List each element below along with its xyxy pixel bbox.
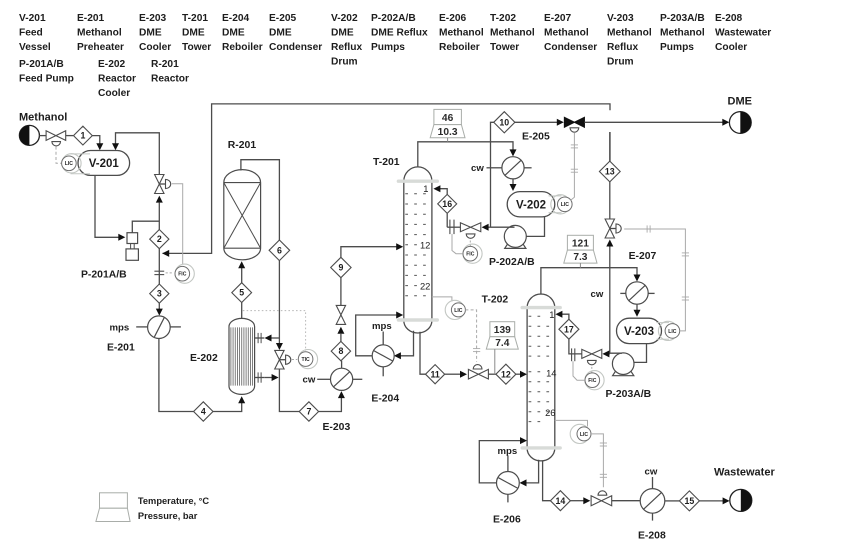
svg-text:cw: cw	[303, 375, 316, 386]
instrument LIC on V-201	[71, 154, 91, 174]
wire stream 8 to check valve	[337, 327, 344, 342]
flow orifice on T-202 reflux line	[572, 348, 575, 361]
cw ticks E-208	[652, 477, 654, 521]
svg-text:Wastewater: Wastewater	[715, 28, 771, 39]
svg-text:T-201: T-201	[182, 13, 208, 24]
wire stream 7 to E-203	[319, 391, 345, 411]
svg-text:FIC: FIC	[178, 272, 187, 278]
svg-text:7.4: 7.4	[495, 338, 509, 349]
svg-text:V-201: V-201	[19, 13, 46, 24]
svg-text:LIC: LIC	[561, 202, 570, 208]
exchanger E-208 wastewater cooler	[640, 489, 665, 514]
svg-text:E-204: E-204	[222, 13, 250, 24]
wire V-201 bottoms to pump	[95, 175, 120, 237]
wire stream 10 to DME product valve	[515, 119, 564, 126]
svg-text:T-201: T-201	[373, 157, 400, 168]
svg-text:FIC: FIC	[466, 252, 475, 258]
node stream 1	[74, 126, 93, 145]
signal LIC to wastewater valve	[591, 434, 603, 487]
instrument LIC on T-201 bottoms	[432, 297, 452, 302]
svg-text:Pumps: Pumps	[660, 42, 694, 53]
vessel V-203 methanol reflux drum	[617, 318, 662, 343]
svg-text:mps: mps	[110, 322, 130, 333]
svg-text:5: 5	[239, 288, 244, 298]
svg-text:Methanol: Methanol	[19, 111, 67, 123]
wire stream 14 to valve	[570, 497, 590, 504]
mps tick E-204	[382, 332, 384, 377]
equipment legend header row 1	[19, 13, 771, 68]
instrument LIC on T-202 bottoms	[555, 420, 588, 426]
svg-text:DME: DME	[331, 28, 354, 39]
svg-text:139: 139	[494, 325, 511, 336]
wire pump riser to valve	[156, 196, 163, 230]
wire bypass branch into E-202 upper nozzle	[265, 335, 280, 342]
wire T-202 bottoms to stream 14	[543, 461, 551, 501]
wire reflux junction to valve	[482, 224, 491, 231]
wire recycle into V-201 second inlet	[116, 133, 160, 175]
flow orifice on reflux line	[450, 220, 454, 235]
svg-text:cw: cw	[591, 289, 604, 300]
svg-text:E-203: E-203	[323, 422, 351, 433]
flow orifice FE on feed line	[154, 271, 173, 274]
T-201 trays (dashed)	[405, 194, 430, 296]
T-201 tray labels 1 12 22	[420, 183, 430, 291]
svg-text:22: 22	[420, 280, 430, 291]
pump P-203A/B	[613, 371, 634, 376]
svg-text:cw: cw	[645, 467, 658, 478]
svg-text:1: 1	[423, 183, 428, 194]
signal FIC to T-202 reflux valve (dashed)	[591, 367, 593, 373]
instrument FIC on feed line	[175, 264, 194, 283]
exchanger E-206 methanol reboiler	[497, 472, 520, 495]
wire P-202 discharge to junction	[491, 226, 515, 228]
signal V-202 LIC to product valve	[571, 132, 575, 200]
signal FIC to recycle valve	[172, 184, 183, 264]
svg-text:Methanol: Methanol	[660, 28, 705, 39]
E-202 lower nozzle with flanges	[255, 372, 265, 382]
flag stream data 46 C / 10.3 bar	[434, 109, 462, 124]
feed control valve	[46, 131, 66, 146]
svg-text:Reflux: Reflux	[607, 42, 638, 53]
exchanger E-204 DME reboiler	[372, 345, 394, 367]
pump P-201A/B (canned)	[126, 233, 138, 261]
instrument FIC T-202 reflux	[585, 371, 604, 390]
svg-text:LIC: LIC	[668, 329, 677, 335]
svg-text:DME: DME	[182, 28, 205, 39]
control valve wastewater (LIC)	[591, 491, 612, 506]
svg-text:6: 6	[277, 245, 282, 255]
wire into E-201	[156, 309, 163, 316]
cw ticks E-203	[317, 378, 362, 380]
svg-text:E-202: E-202	[98, 59, 126, 70]
wire E-206 vapor return to column	[479, 437, 527, 483]
wire E-202 outlet rejoins bypass	[264, 374, 278, 381]
wire stream 17 into T-202 top	[555, 311, 569, 320]
svg-text:E-203: E-203	[139, 13, 167, 24]
svg-text:P-202A/B: P-202A/B	[489, 257, 535, 268]
node recycle-feed junction arrow	[162, 250, 169, 257]
node stream 10	[494, 112, 515, 133]
svg-text:Reactor: Reactor	[151, 74, 189, 85]
node stream 2	[150, 230, 169, 249]
node stream 12	[496, 364, 516, 384]
product stream symbol wastewater	[730, 489, 752, 511]
svg-text:Condenser: Condenser	[544, 42, 597, 53]
wire P-203 discharge riser	[610, 246, 622, 353]
wire E-205 to V-202	[510, 179, 517, 191]
vessel V-201 feed vessel	[78, 151, 130, 176]
svg-text:Reactor: Reactor	[98, 74, 136, 85]
cw ticks E-205	[487, 167, 532, 169]
svg-text:T-202: T-202	[490, 13, 516, 24]
svg-text:DME: DME	[269, 28, 292, 39]
node stream 5	[232, 283, 252, 303]
wire valve to stream 13	[609, 182, 611, 219]
svg-text:P-203A/B: P-203A/B	[606, 389, 652, 400]
product stream symbol DME	[729, 112, 751, 134]
exchanger E-205 DME condenser	[502, 157, 524, 179]
node stream 3	[150, 284, 169, 303]
svg-text:E-206: E-206	[493, 515, 521, 526]
wire junction riser to stream 10	[491, 122, 495, 227]
wire methanol recycle header line	[163, 104, 611, 254]
svg-text:Pumps: Pumps	[371, 42, 405, 53]
instrument LIC on V-202	[549, 196, 562, 213]
wire reflux valve to stream 17	[569, 339, 582, 354]
exchanger E-207 methanol condenser	[626, 282, 648, 304]
signal LIC to bottoms valve (dashed)	[465, 310, 476, 362]
signal orifice to FIC	[452, 234, 463, 254]
wire stream 9 feed into T-201	[341, 243, 403, 257]
svg-text:Pressure, bar: Pressure, bar	[138, 511, 198, 521]
svg-text:Vessel: Vessel	[19, 42, 51, 53]
svg-text:Methanol: Methanol	[607, 28, 652, 39]
svg-text:E-208: E-208	[715, 13, 743, 24]
svg-text:12: 12	[501, 369, 511, 379]
wire stream 11 to valve	[445, 371, 467, 378]
feed stream symbol (half-filled circle)	[19, 125, 39, 145]
control valve methanol recycle	[605, 219, 621, 238]
svg-text:DME Reflux: DME Reflux	[371, 28, 428, 39]
wire T-202 overhead to E-207	[541, 268, 637, 295]
svg-text:15: 15	[685, 496, 695, 506]
signal LIC to feed valve (dashed)	[56, 147, 61, 164]
T-202 trays (dashed)	[529, 316, 554, 421]
node stream 11	[426, 365, 445, 384]
svg-text:E-207: E-207	[544, 13, 572, 24]
svg-text:P-201A/B: P-201A/B	[81, 270, 127, 281]
wire stream 4 to E-202 bottom	[213, 396, 245, 411]
wire pump discharge to riser	[132, 221, 159, 233]
wire valve to stream 1	[66, 135, 74, 137]
wire E-208 to stream 15	[665, 500, 680, 502]
wire valve to stream 9	[340, 278, 342, 306]
wire E-204 vapor return to column	[356, 312, 404, 356]
node stream 6	[269, 240, 290, 261]
svg-text:4: 4	[201, 407, 206, 417]
svg-text:P-201A/B: P-201A/B	[19, 59, 64, 70]
wire T-201 overhead to E-205	[418, 142, 513, 167]
wire bypass to stream 7	[279, 369, 299, 411]
svg-text:10: 10	[499, 117, 509, 127]
instrument TIC	[298, 350, 317, 369]
svg-text:Drum: Drum	[607, 57, 634, 68]
svg-text:V-203: V-203	[624, 326, 654, 338]
wire stream 2 down to E-201	[158, 249, 160, 310]
svg-text:Methanol: Methanol	[439, 28, 484, 39]
svg-text:V-201: V-201	[89, 158, 120, 170]
svg-text:V-202: V-202	[516, 199, 546, 211]
control valve T-202 reflux (FIC)	[582, 349, 602, 364]
node stream 16	[438, 194, 457, 213]
svg-text:2: 2	[157, 234, 162, 244]
svg-text:Methanol: Methanol	[77, 28, 122, 39]
svg-text:R-201: R-201	[151, 59, 179, 70]
svg-text:10.3: 10.3	[438, 127, 458, 138]
wire T-202 reboiler draw to E-206	[520, 460, 539, 487]
exchanger E-202 reactor cooler (shell and tube)	[229, 318, 255, 394]
svg-text:TIC: TIC	[301, 357, 310, 363]
svg-text:E-207: E-207	[629, 251, 657, 262]
signal TIC temperature tap (dotted)	[243, 311, 306, 351]
wire feed to valve	[39, 135, 46, 137]
wire E-207 to V-203	[634, 304, 641, 317]
svg-text:16: 16	[442, 199, 452, 209]
valve on T-201 feed riser	[336, 305, 345, 324]
flag stream data 139 C / 7.4 bar	[490, 322, 515, 337]
wire E-201 to stream 4 to E-202	[159, 339, 194, 412]
svg-text:Reflux: Reflux	[331, 42, 362, 53]
svg-text:14: 14	[556, 496, 566, 506]
instrument FIC T-201 reflux	[463, 244, 482, 263]
node stream 4	[194, 402, 213, 421]
node stream 15	[679, 491, 699, 511]
control valve T-201 reflux (FIC)	[460, 223, 480, 239]
svg-text:E-206: E-206	[439, 13, 467, 24]
wire stream 12 into T-202	[516, 371, 527, 378]
svg-text:Preheater: Preheater	[77, 42, 124, 53]
vessel V-202 DME reflux drum	[507, 192, 555, 217]
wire E-203 up to stream 8	[341, 361, 343, 368]
svg-text:E-208: E-208	[638, 530, 666, 541]
exchanger E-203 DME cooler	[331, 368, 353, 390]
wire reflux valve to stream 16	[447, 226, 460, 228]
wire V-202 bottoms to P-202	[526, 217, 545, 237]
svg-text:12: 12	[420, 240, 430, 251]
exchanger E-201 methanol preheater	[148, 316, 171, 339]
svg-text:DME: DME	[222, 28, 245, 39]
equipment legend header row 2	[19, 59, 189, 99]
reactor R-201 packed bed	[224, 170, 261, 260]
svg-text:14: 14	[546, 367, 556, 378]
svg-text:Reboiler: Reboiler	[439, 42, 480, 53]
control valve recycle to V-201	[155, 175, 171, 194]
svg-text:mps: mps	[498, 446, 518, 457]
svg-text:Drum: Drum	[331, 57, 358, 68]
svg-text:Methanol: Methanol	[490, 28, 535, 39]
cw ticks E-207	[620, 292, 654, 294]
svg-text:Cooler: Cooler	[98, 88, 130, 99]
svg-text:26: 26	[545, 407, 555, 418]
svg-text:Feed Pump: Feed Pump	[19, 74, 74, 85]
node stream 14	[550, 491, 570, 511]
svg-text:LIC: LIC	[454, 308, 463, 314]
node stream 13	[599, 161, 620, 182]
svg-text:V-203: V-203	[607, 13, 634, 24]
signal FIC to reflux valve (dashed)	[469, 241, 471, 247]
T-202 tray labels 1 14 26	[545, 309, 556, 418]
instrument LIC on V-203	[657, 323, 670, 340]
svg-text:FIC: FIC	[588, 378, 597, 384]
svg-text:Feed: Feed	[19, 28, 43, 39]
svg-text:Temperature, °C: Temperature, °C	[138, 496, 210, 506]
wire valve to stream 12	[488, 373, 496, 375]
wire E-202 top to stream 5	[241, 302, 243, 319]
node stream 7	[299, 402, 318, 421]
node stream 9	[331, 257, 351, 277]
svg-text:E-204: E-204	[371, 393, 399, 404]
wire stream 5 into R-201	[238, 261, 245, 282]
svg-text:E-205: E-205	[522, 131, 550, 142]
wire stream 15 to wastewater product	[699, 497, 729, 504]
wire stream 1 to V-201 inlet	[92, 136, 100, 145]
svg-text:P-202A/B: P-202A/B	[371, 13, 416, 24]
svg-text:9: 9	[338, 263, 343, 273]
svg-text:cw: cw	[471, 163, 484, 174]
mps tick lines E-201	[136, 326, 181, 328]
wire valve to E-208	[612, 500, 641, 502]
svg-text:Condenser: Condenser	[269, 42, 322, 53]
svg-text:46: 46	[442, 113, 454, 124]
wire reflux branch to valve	[602, 350, 609, 357]
svg-text:E-201: E-201	[77, 13, 105, 24]
wire reactor outlet to bypass column	[241, 160, 280, 241]
svg-text:13: 13	[605, 167, 615, 177]
svg-text:DME: DME	[139, 28, 162, 39]
svg-text:Tower: Tower	[490, 42, 519, 53]
wire V-203 bottoms to P-203	[635, 344, 647, 363]
svg-text:E-205: E-205	[269, 13, 297, 24]
wire DME product line	[584, 119, 729, 126]
svg-text:11: 11	[430, 369, 439, 379]
svg-text:Cooler: Cooler	[139, 42, 171, 53]
svg-text:Wastewater: Wastewater	[714, 466, 775, 478]
svg-text:Tower: Tower	[182, 42, 211, 53]
column T-201 DME tower	[398, 167, 437, 333]
svg-text:V-202: V-202	[331, 13, 358, 24]
signal V-203 LIC to recycle valve	[624, 229, 685, 331]
svg-text:E-201: E-201	[107, 342, 135, 353]
control valve E-202 bypass (TIC)	[275, 350, 291, 369]
mps tick E-206	[507, 455, 509, 502]
E-202 upper nozzle with flanges	[255, 333, 265, 343]
svg-text:8: 8	[338, 346, 343, 356]
svg-text:DME: DME	[728, 95, 752, 107]
svg-text:7: 7	[306, 407, 311, 417]
flag stream data 121 C / 7.3 bar	[567, 235, 593, 250]
svg-text:P-203A/B: P-203A/B	[660, 13, 705, 24]
control valve T-201 bottoms	[468, 365, 488, 379]
svg-text:1: 1	[549, 309, 554, 320]
svg-text:LIC: LIC	[65, 161, 74, 167]
legend flag symbol	[96, 493, 130, 522]
wire stream 16 into T-201 top	[433, 185, 447, 194]
wire stream 13 to top recycle line	[609, 132, 611, 161]
svg-text:7.3: 7.3	[573, 252, 587, 263]
legend text	[138, 496, 210, 521]
node stream 17	[559, 319, 579, 339]
svg-text:121: 121	[572, 239, 589, 250]
signal TIC to bypass valve	[292, 359, 297, 361]
svg-text:3: 3	[157, 289, 162, 299]
signal orifice to FIC T-202	[573, 361, 585, 380]
svg-text:mps: mps	[372, 321, 392, 332]
column T-202 methanol tower	[522, 294, 560, 461]
wire T-201 bottoms draw to E-204	[394, 331, 414, 360]
svg-text:Cooler: Cooler	[715, 42, 747, 53]
pump P-202A/B	[505, 244, 526, 249]
svg-text:LIC: LIC	[580, 432, 589, 438]
svg-text:Reboiler: Reboiler	[222, 42, 263, 53]
svg-text:T-202: T-202	[482, 294, 509, 305]
control valve DME product (black)	[564, 117, 584, 132]
svg-text:R-201: R-201	[228, 140, 257, 151]
svg-text:E-202: E-202	[190, 353, 218, 364]
wire T-201 bottoms to stream 11	[420, 332, 426, 374]
svg-text:17: 17	[564, 324, 574, 334]
svg-text:1: 1	[80, 131, 85, 141]
wire stream 6 down to TIC valve	[276, 261, 283, 350]
node stream 8	[331, 341, 350, 360]
svg-text:Methanol: Methanol	[544, 28, 589, 39]
